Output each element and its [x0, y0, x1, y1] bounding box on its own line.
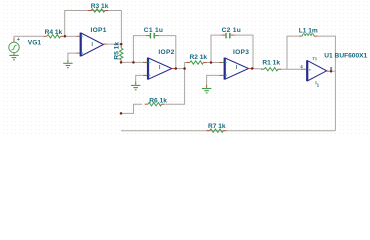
svg-text:+: +: [17, 37, 20, 43]
wire R6 left leg from node E: [121, 104, 142, 113]
svg-text:R2 1k: R2 1k: [190, 54, 208, 61]
wire C1 left leg: [133, 36, 146, 63]
wire IOP2 output row: [175, 68, 185, 70]
node B junction dot: [120, 43, 123, 46]
ground below VG1: [9, 55, 18, 59]
svg-text:IOP1: IOP1: [91, 27, 107, 34]
wire R4 to IOP1 minus: [65, 35, 77, 37]
resistor R5 (vertical): [120, 45, 123, 62]
wire node A riser to R3 top row and down to IOP1 output: [65, 11, 122, 44]
node A junction dot: [64, 35, 67, 38]
wire riser node D to R2 row: [185, 63, 188, 69]
U1 output junction dot: [330, 70, 333, 73]
wire IOP3 plus to ground: [207, 75, 220, 85]
C2 left junction dot: [210, 61, 213, 64]
wire R5 column node B to bottom row: [120, 44, 122, 45]
node E junction dot: [120, 112, 123, 115]
resistor R2: [187, 61, 207, 64]
svg-text:IOP2: IOP2: [158, 49, 174, 56]
IOP3 output junction dot: [251, 67, 254, 70]
svg-text:C1 1u: C1 1u: [144, 27, 163, 34]
svg-text:R6 1k: R6 1k: [149, 97, 167, 104]
svg-text:R5 1k: R5 1k: [113, 42, 120, 60]
resistor R3: [88, 9, 108, 12]
wire U1 output to right column: [332, 70, 336, 72]
svg-text:R7 1k: R7 1k: [208, 123, 226, 130]
wire IOP2 plus to ground: [136, 75, 143, 81]
wire C1 right leg to IOP2 output node: [159, 36, 176, 69]
wire L1 riser: [287, 36, 299, 69]
svg-text:R4 1k: R4 1k: [45, 29, 63, 36]
svg-text:U1 BUF600X1: U1 BUF600X1: [324, 53, 367, 60]
ground below IOP1 plus input: [67, 60, 69, 63]
voltage source VG1: [9, 37, 20, 55]
wire L1 right leg down right side to bottom row: [317, 36, 335, 131]
inductor L1: [299, 34, 317, 36]
svg-text:R3 1k: R3 1k: [91, 3, 109, 10]
svg-text:R1 1k: R1 1k: [262, 59, 280, 66]
op-amp IOP2: [143, 58, 175, 80]
wire C2 right leg down to IOP3 output: [235, 35, 253, 68]
wire R2 to IOP3 minus: [206, 62, 220, 64]
wire C2 left leg: [211, 35, 221, 62]
wire bottom row: [121, 130, 335, 132]
svg-text:IOP3: IOP3: [233, 49, 249, 56]
wire IOP3 output to R1: [252, 68, 262, 70]
node D junction dot: [183, 67, 186, 70]
resistor R7: [206, 129, 226, 132]
op-amp IOP3: [220, 58, 252, 80]
resistor R1: [261, 68, 281, 71]
resistor R4: [44, 35, 64, 38]
wire IOP1 output to node B: [107, 43, 122, 45]
node C junction dot: [120, 61, 123, 64]
ground below IOP2 plus input: [135, 82, 137, 85]
C1 right junction dot: [175, 67, 178, 70]
ground below IOP3 plus input: [206, 85, 208, 88]
C1 left junction dot: [132, 61, 135, 64]
wire IOP1 plus to ground: [68, 53, 77, 60]
svg-text:C2 1u: C2 1u: [222, 27, 241, 34]
capacitor C1: [146, 33, 159, 39]
svg-text:L1 1m: L1 1m: [299, 28, 318, 35]
wire VG1 top riser and input row to R4: [14, 36, 44, 42]
resistor R6: [145, 103, 165, 106]
svg-text:VG1: VG1: [28, 40, 42, 47]
wire node C to IOP2 minus: [121, 61, 143, 63]
wire R6 right leg riser to node D: [165, 69, 184, 105]
capacitor C2: [221, 33, 234, 39]
op-amp IOP1: [77, 33, 107, 57]
buffer U1 BUF600X1: [300, 56, 333, 88]
wire R1 to U1 input: [280, 68, 300, 70]
